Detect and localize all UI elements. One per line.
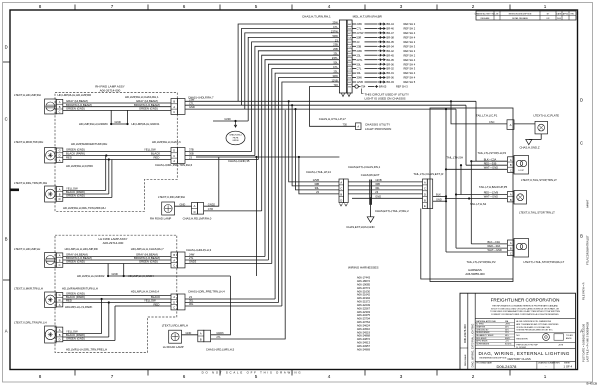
- wire 23TW row 3 L-bend: [245, 33, 340, 109]
- svg-text:A06-24519: A06-24519: [357, 330, 371, 334]
- wire BLK-C3A stop lamp 2: [471, 240, 507, 244]
- connector/lamp LH marker turn: [45, 292, 63, 308]
- svg-text:REF SH 2: REF SH 2: [404, 40, 416, 44]
- svg-text:G: G: [59, 149, 61, 153]
- svg-text:HD,LMP,LH,H,CHAS,RH,7: HD,LMP,LH,H,CHAS,RH,7: [131, 247, 164, 251]
- wire RED-30B stop lamp 1: [460, 161, 507, 166]
- svg-text:HD,LMP,RH,H,GND31: HD,LMP,RH,H,GND31: [132, 122, 160, 126]
- riser wire C7L to stop RED: [465, 105, 467, 165]
- wire GREEN (GND) LH marker: [63, 292, 171, 296]
- svg-text:A06-23704: A06-23704: [357, 317, 371, 321]
- svg-text:BR-05: BR-05: [379, 85, 387, 89]
- svg-text:A: A: [5, 329, 8, 334]
- right margin vertical plot text: [582, 199, 590, 362]
- svg-text:GND: GND: [375, 194, 381, 198]
- label CHAS,EXT,H,RH,GND: [346, 225, 374, 229]
- wire GND stub right of external connector: [433, 197, 447, 202]
- svg-text:MFG ENGR: MFG ENGR: [476, 338, 487, 340]
- svg-text:TAIL,LT,H,LIC,P1: TAIL,LT,H,LIC,P1: [476, 113, 498, 117]
- svg-text:23B: 23B: [357, 44, 362, 48]
- svg-text:HD,LMP,RH,H,GNDMC: HD,LMP,RH,H,GNDMC: [79, 122, 108, 126]
- svg-text:REF SH 3: REF SH 3: [396, 85, 408, 89]
- label LTEXT,U,TAIL,STOP,TRN,LT: [521, 178, 557, 182]
- wire BLACK (PARK) RH marker: [63, 152, 171, 157]
- svg-text:B: B: [59, 333, 61, 337]
- connector license lamp pin A: [507, 120, 514, 130]
- svg-text:RELEASE: RELEASE: [481, 17, 490, 20]
- svg-text:6: 6: [183, 4, 186, 9]
- svg-text:CHAS,H,TAIL,LP,14: CHAS,H,TAIL,LP,14: [306, 170, 331, 174]
- label LTEXT,H,MKR,TRN,RH: [14, 140, 43, 144]
- svg-text:D: D: [173, 149, 175, 153]
- connector/lamp RH headlamp (hi/lo): [45, 99, 63, 114]
- label CHAS,H,T,URN,RH,1: [302, 14, 331, 18]
- block right-side wires with BR references: [352, 22, 416, 84]
- svg-text:A06-24624: A06-24624: [357, 323, 371, 327]
- svg-text:D: D: [340, 198, 342, 202]
- svg-text:A06-20774: A06-20774: [357, 286, 371, 290]
- svg-text:GREEN (GND): GREEN (GND): [66, 194, 85, 198]
- svg-text:C: C: [59, 263, 61, 267]
- svg-text:BLK—C3A: BLK—C3A: [484, 157, 497, 161]
- svg-text:B-45CB: B-45CB: [586, 382, 597, 386]
- label HD,LMP,RH,H,HD,LMP,RD: [58, 93, 92, 97]
- wire 30W row 13 L-bend: [279, 78, 340, 303]
- svg-text:GREEN (GND): GREEN (GND): [139, 260, 158, 264]
- label CHAS,H,HDLP,RH,7: [188, 96, 214, 100]
- connector/lamp RH marker turn: [45, 148, 63, 164]
- svg-text:GND: GND: [186, 331, 192, 335]
- lamp stop/turn RH: [514, 239, 529, 258]
- wire BLACK (PARK) LH DRL: [63, 333, 109, 337]
- svg-text:12VB: 12VB: [313, 178, 320, 182]
- svg-text:G: G: [59, 293, 61, 297]
- wire GND6 LH road lamp: [124, 276, 231, 335]
- label HD,LMP,LH,H,CHAS,RH,7: [131, 247, 164, 251]
- wire WHT-GND stop lamp 2: [446, 248, 507, 252]
- riser wires RH DRL to marker rows: [106, 156, 112, 198]
- svg-text:RELIABILITY ENGR: RELIABILITY ENGR: [476, 334, 494, 337]
- wire RED-30A stop lamp 2: [456, 244, 507, 248]
- svg-text:GND: GND: [189, 105, 195, 109]
- svg-text:C: C: [173, 264, 175, 268]
- connector HD,LMP,RH,H,CHAS,RH,1: [171, 99, 185, 115]
- svg-text:REF SH 4: REF SH 4: [404, 62, 416, 66]
- label LTEXT,U,RD,LMP,LH: [162, 323, 188, 327]
- riser wire 23W to stop lamp BLK: [475, 101, 477, 161]
- svg-text:CHECKED BY: CHECKED BY: [476, 329, 489, 331]
- svg-text:D: D: [59, 338, 61, 342]
- svg-text:C: C: [510, 168, 512, 172]
- title block approvals table: [475, 319, 514, 348]
- wires LH marker rows to bundle: [185, 295, 275, 299]
- svg-text:A: A: [59, 100, 61, 104]
- svg-text:CSC: CSC: [489, 120, 495, 124]
- svg-text:23TL: 23TL: [357, 58, 363, 62]
- title block company name: [491, 297, 560, 302]
- svg-text:GND3: GND3: [189, 260, 197, 264]
- wire 23TL row 9 L-bend: [265, 60, 339, 257]
- svg-text:A06-22567: A06-22567: [357, 306, 371, 310]
- svg-text:A06-22249: A06-22249: [357, 303, 371, 307]
- wire RED LH marker: [63, 299, 171, 307]
- svg-text:3: 3: [400, 374, 403, 379]
- svg-text:A: A: [59, 254, 61, 258]
- svg-text:LOOP: LOOP: [518, 170, 524, 172]
- svg-text:30B: 30B: [189, 152, 194, 156]
- svg-text:-: -: [546, 365, 547, 369]
- label CHAS,RN,EXT: [361, 173, 380, 177]
- connector CHAS,H,RD,LMP,RH,0: [192, 203, 204, 215]
- svg-text:C: C: [173, 154, 175, 158]
- svg-text:HD,LMP,RH,H,CHAS,6: HD,LMP,RH,H,CHAS,6: [152, 140, 181, 144]
- svg-text:REF SH 4: REF SH 4: [404, 31, 416, 35]
- label HD,LMP,RH,H,GND31: [132, 122, 160, 126]
- svg-text:46%: 46%: [505, 326, 509, 328]
- svg-text:CHAS,H,GNLJ: CHAS,H,GNLJ: [229, 134, 242, 137]
- svg-text:C: C: [5, 117, 8, 122]
- label CHASSIS UTILITY LIGHT PROVISION: [365, 122, 391, 130]
- zone row letters right: [580, 98, 583, 334]
- svg-text:D: D: [424, 192, 426, 196]
- wire GND row to external connector: [352, 194, 423, 199]
- label HD,LMP,LH,H,GND4: [128, 274, 154, 278]
- svg-text:D: D: [59, 154, 61, 158]
- svg-text:REF SH 2: REF SH 2: [404, 53, 416, 57]
- svg-text:8: 8: [39, 4, 42, 9]
- wire WHT-GND stop lamp 1: [446, 165, 507, 169]
- wire GND long run RH: [185, 105, 456, 109]
- svg-text:GND30: GND30: [232, 140, 238, 142]
- svg-text:C: C: [59, 110, 61, 114]
- title block left vertical strips: [460, 324, 475, 368]
- wire YELLOW LH DRL: [63, 330, 102, 334]
- title block notes right: [516, 320, 559, 332]
- svg-text:HD,LMP,RH,H,DRL,TRN,MRK,RH: HD,LMP,RH,H,DRL,TRN,MRK,RH: [63, 206, 106, 210]
- svg-text:DIAG, WIRING, EXTERNAL LIGHTIN: DIAG, WIRING, EXTERNAL LIGHTING: [479, 351, 570, 356]
- wire WHT-GND backup lamp: [446, 195, 507, 200]
- wire 23L row 8 L-bend: [262, 55, 340, 211]
- svg-text:D: D: [173, 300, 175, 304]
- svg-text:BLK—C3A: BLK—C3A: [488, 240, 501, 244]
- wire 27L LH road lamp feed: [211, 110, 286, 339]
- svg-text:DWG NAME: DWG NAME: [464, 354, 467, 366]
- wire LH ground link GND: [107, 264, 125, 278]
- svg-text:A: A: [59, 328, 61, 332]
- svg-text:30L: 30L: [189, 302, 194, 306]
- svg-text:LIGHT PROVISION: LIGHT PROVISION: [365, 127, 391, 131]
- label CHAS,EXT,H,TAIL,LT,RH,2: [375, 209, 409, 213]
- row 15 utility circuit stub with splice circle: [352, 85, 408, 89]
- corner plot stamp text: [586, 382, 597, 386]
- wire GRAY (HI,BEAM) RH: [63, 99, 171, 103]
- wire BLACK (PARK) LH marker: [63, 295, 171, 300]
- label HD,LMP,RH,H,CHAS,6: [152, 140, 181, 144]
- label LTEXT,U,RD,LMP,RH: [158, 195, 185, 199]
- svg-text:BR-06: BR-06: [387, 76, 395, 80]
- svg-text:IS NOT TO BE DISCLOSED OR DUPL: IS NOT TO BE DISCLOSED OR DUPLICATED IN …: [491, 307, 560, 310]
- svg-text:C: C: [173, 306, 175, 310]
- svg-text:3: 3: [400, 4, 403, 9]
- zone row tick marker left (thick): [10, 189, 19, 192]
- wire BLACK (PARK) RH DRL: [63, 190, 109, 194]
- svg-text:RH ROAD LAMP: RH ROAD LAMP: [150, 217, 171, 221]
- RH FWD LAMP ASSY dashed enclosure: [55, 93, 177, 212]
- svg-text:C7R: C7R: [208, 207, 213, 211]
- svg-text:A06-50855-000: A06-50855-000: [465, 272, 485, 276]
- wire GREEN (GND) RH DRL: [63, 194, 112, 198]
- svg-text:6: 6: [183, 374, 186, 379]
- svg-text:A: A: [357, 125, 359, 129]
- svg-text:D06-24378-000: D06-24378-000: [463, 324, 467, 343]
- svg-text:1: 1: [544, 374, 547, 379]
- svg-text:E: E: [424, 204, 426, 208]
- svg-text:GND: GND: [112, 272, 118, 276]
- svg-text:CENTURY CLASS: CENTURY CLASS: [507, 357, 531, 361]
- svg-text:LIGHT IS USED ON CHASSIS: LIGHT IS USED ON CHASSIS: [365, 97, 406, 101]
- svg-text:GND: GND: [224, 117, 230, 121]
- label LTEXT,U,HD,LMP,LH: [14, 247, 40, 251]
- svg-text:TAIL,LT,H,S2: TAIL,LT,H,S2: [470, 202, 487, 206]
- svg-text:A06-23764: A06-23764: [357, 320, 371, 324]
- svg-text:HD,LMP,H,LH,GND02: HD,LMP,H,LH,GND02: [77, 274, 105, 278]
- label TAIL,LT,H,SH: [446, 155, 463, 159]
- svg-text:D: D: [580, 98, 583, 103]
- riser BLK net to stop lamp 2: [470, 161, 472, 244]
- svg-text:FTL/VCDRS/WHTRNLDT: FTL/VCDRS/WHTRNLDT: [586, 235, 590, 265]
- svg-text:D06-24378: D06-24378: [497, 364, 518, 369]
- svg-text:FR,FB: FR,FB: [233, 137, 239, 139]
- svg-text:+8/96: +8/96: [505, 324, 510, 326]
- svg-text:A06-21994: A06-21994: [357, 296, 371, 300]
- svg-text:BR-01: BR-01: [387, 71, 395, 75]
- svg-text:LTEXT,U,HD,LMP,LH: LTEXT,U,HD,LMP,LH: [14, 247, 40, 251]
- label HD,LMP,LH,H,HD,LMP,RD: [65, 247, 98, 251]
- svg-text:APVD: APVD: [563, 12, 569, 15]
- svg-text:754: 754: [361, 85, 366, 89]
- label TAIL,LT,H,LIC,P1: [476, 113, 498, 117]
- svg-text:C: C: [173, 110, 175, 114]
- svg-text:BR-47: BR-47: [387, 31, 395, 35]
- svg-text:A: A: [510, 158, 512, 162]
- svg-text:A06-24969: A06-24969: [357, 347, 371, 351]
- wire 20B row 7 L-bend: [258, 51, 339, 160]
- svg-text:C7L: C7L: [357, 27, 362, 31]
- svg-text:BLK: BLK: [436, 193, 441, 197]
- svg-text:23W: 23W: [189, 97, 195, 101]
- wire 50W row 4 L-bend: [248, 37, 339, 121]
- svg-text:B: B: [200, 338, 202, 342]
- svg-text:TO BE USED FOR MANUFACTURE OF: TO BE USED FOR MANUFACTURE OF ANY ITEM W…: [490, 310, 560, 313]
- svg-text:A06-29714-000: A06-29714-000: [103, 241, 124, 245]
- svg-text:REF SH 2: REF SH 2: [404, 22, 416, 26]
- label TAIL,LT,H,CHAS,EXT,R: [413, 172, 443, 176]
- svg-text:LTEXT,X,DRL,TRN,PK,LH: LTEXT,X,DRL,TRN,PK,LH: [14, 320, 47, 324]
- label HD,LMP,H,LH,GND02: [77, 274, 105, 278]
- svg-text:HD,LMP,LH,H,CHAS,4: HD,LMP,LH,H,CHAS,4: [131, 290, 160, 294]
- svg-text:48%: 48%: [505, 335, 509, 337]
- label TAIL,LT,H,STOP,LH,P4: [478, 151, 507, 155]
- label HD,LMP,RH,H,D,PRK: [66, 164, 93, 168]
- label HD,LMP,RH,H,DRL,TRN,MRK,RH: [63, 206, 106, 210]
- label CHAS,H,HDLP,LH,3: [186, 248, 212, 252]
- svg-text:ANCE: ANCE: [566, 337, 572, 340]
- svg-text:LTEXT,H,HD,LMP,RH: LTEXT,H,HD,LMP,RH: [14, 93, 41, 97]
- title block divider: [475, 318, 575, 320]
- svg-text:30L: 30L: [189, 299, 194, 303]
- svg-text:REF SH 5: REF SH 5: [404, 80, 416, 84]
- label CHAS,H,DRL,PRK,TRN,RH,6: [155, 163, 193, 167]
- wire labels 12VB 30B 30L 23 left of tail connector: [313, 178, 320, 194]
- wire GND branch to ground stud: [213, 117, 248, 127]
- svg-text:LTEXT,H,LIC,PLATE: LTEXT,H,LIC,PLATE: [534, 113, 560, 117]
- svg-text:CHAS,H,T,URN,RH,1: CHAS,H,T,URN,RH,1: [302, 14, 331, 18]
- wire BLK-C3A stop lamp 1: [470, 157, 507, 162]
- svg-text:REF SH 4: REF SH 4: [404, 58, 416, 62]
- wire GND2 RH road lamp: [204, 157, 219, 206]
- lamp RH ROAD LAMP: [162, 202, 175, 215]
- svg-text:GND: GND: [436, 197, 442, 201]
- label HD,LMP,RH,H,CHAS,RH,1: [125, 95, 159, 99]
- svg-text:HD,LMP,MARKER/TURN,RH: HD,LMP,MARKER/TURN,RH: [71, 142, 107, 146]
- svg-text:DESIGN ENGR: DESIGN ENGR: [476, 332, 490, 334]
- connector HD,LMP,RH,H,CHAS,6: [171, 148, 185, 164]
- svg-text:HDLMP,LH,H,S,PARK: HDLMP,LH,H,S,PARK: [65, 305, 93, 309]
- svg-text:4: 4: [328, 4, 331, 9]
- svg-text:FILE PATH = P:: FILE PATH = P:: [582, 282, 586, 300]
- title block drawing title: [479, 351, 570, 361]
- svg-text:TAIL,LT,H,BACKUP,P5: TAIL,LT,H,BACKUP,P5: [479, 185, 508, 189]
- label CHAS,H,DRL,PRE,TRN,LH,4: [188, 290, 225, 294]
- svg-text:GREEN (GND): GREEN (GND): [139, 107, 158, 111]
- svg-text:CHAS,H,UTIL,LP,17: CHAS,H,UTIL,LP,17: [319, 117, 346, 121]
- svg-text:B: B: [59, 192, 61, 196]
- svg-text:CHAS,H,GND,Z: CHAS,H,GND,Z: [520, 146, 540, 150]
- svg-text:23W: 23W: [357, 22, 363, 26]
- svg-text:C: C: [510, 251, 512, 255]
- svg-text:50L: 50L: [357, 62, 362, 66]
- svg-text:7: 7: [111, 374, 114, 379]
- svg-text:BR-42: BR-42: [387, 49, 395, 53]
- revision table: [475, 11, 576, 20]
- wire 23W long run RH hi: [185, 97, 476, 101]
- svg-text:IF NON ON-BOARD COLOR MAX. MI: IF NON ON-BOARD COLOR MAX. MIN: [516, 326, 550, 329]
- wire 23B row 6 L-bend: [255, 46, 340, 155]
- label CHAS,H,TAIL,LP,14: [306, 170, 331, 174]
- wire CSC license lamp feed: [450, 100, 507, 124]
- svg-text:CHAS,H,DRL,PRK,TRN,RH,6: CHAS,H,DRL,PRK,TRN,RH,6: [155, 163, 193, 167]
- svg-text:A06-21642: A06-21642: [357, 293, 371, 297]
- svg-text:C: C: [580, 141, 583, 146]
- svg-text:HD,LMP,LH,H,HD,LMP,RD: HD,LMP,LH,H,HD,LMP,RD: [65, 247, 98, 251]
- label LTEXT,H,LIC,PLATE: [534, 113, 560, 117]
- wire RH ground link GND: [110, 110, 129, 125]
- svg-text:A. THRU: A. THRU: [476, 323, 484, 326]
- svg-text:CONSENT OF FREIGHTLINER CORPOR: CONSENT OF FREIGHTLINER CORPORATION. ALL…: [491, 313, 560, 316]
- svg-text:REF SH 3: REF SH 3: [404, 44, 416, 48]
- wire 12VB row 14 L-bend: [282, 82, 340, 306]
- svg-text:BR-05: BR-05: [387, 40, 395, 44]
- svg-text:RED: RED: [66, 156, 72, 160]
- connector CHAS,H,RD,LMP,LH,5: [198, 330, 211, 342]
- riser wires LH DRL to marker rows: [102, 299, 120, 341]
- svg-text:RED—12VB: RED—12VB: [484, 191, 499, 195]
- svg-text:A06-18072: A06-18072: [357, 279, 371, 283]
- svg-text:CHASSIS UTILITY: CHASSIS UTILITY: [365, 122, 390, 126]
- svg-text:RED—30B: RED—30B: [484, 161, 497, 165]
- lamp stop/turn LH: [514, 156, 529, 175]
- svg-text:5: 5: [255, 4, 258, 9]
- zone column numbers bottom: [39, 370, 547, 379]
- svg-text:30L: 30L: [315, 186, 320, 190]
- svg-text:FREIGHTLINER CORPORATION: FREIGHTLINER CORPORATION: [491, 297, 560, 302]
- label LH ROAD LAMP: [163, 345, 184, 349]
- svg-text:C7L: C7L: [357, 67, 362, 71]
- svg-text:D: D: [194, 210, 196, 214]
- wire GND LH road lamp: [182, 331, 198, 335]
- svg-text:GREEN (GND): GREEN (GND): [66, 107, 85, 111]
- connector/lamp LH DRL turn park: [45, 326, 63, 343]
- svg-text:REF SH 4: REF SH 4: [404, 71, 416, 75]
- connector stop/turn lamp RH pins A B C: [508, 240, 515, 256]
- svg-text:GND: GND: [180, 202, 186, 206]
- label TAIL,LT,H,STOP,RH,P2: [467, 260, 496, 264]
- svg-text:27L: 27L: [189, 256, 194, 260]
- svg-text:TAIL,LT,H,STOP,LH,P4: TAIL,LT,H,STOP,LH,P4: [478, 151, 507, 155]
- connector backup lamp pins A B: [508, 192, 515, 202]
- svg-text:A: A: [424, 181, 426, 185]
- svg-text:+2%: +2%: [505, 341, 509, 343]
- label TAIL,LT,H,S2: [470, 202, 487, 206]
- svg-text:B: B: [5, 237, 8, 242]
- svg-text:HD,LMP,RH,H,HD,LMP,RD: HD,LMP,RH,H,HD,LMP,RD: [58, 93, 92, 97]
- svg-text:A: A: [59, 303, 61, 307]
- label LTEXT,U,MKR,TRN,LH: [14, 286, 43, 290]
- svg-text:A: A: [510, 123, 512, 127]
- wire RED RH marker: [63, 148, 171, 160]
- svg-text:CHAS,RN,EXT: CHAS,RN,EXT: [361, 173, 380, 177]
- svg-text:REF SH 2: REF SH 2: [404, 27, 416, 31]
- label HD,LMP,MARKER/TURN,LH: [62, 286, 98, 290]
- label CHAS,H,GND,Z: [520, 146, 540, 150]
- label CHAS,H,RD,LMP,LH,5: [206, 347, 235, 351]
- svg-text:MDL,H,T,URN,RH,BR: MDL,H,T,URN,RH,BR: [353, 14, 383, 18]
- svg-text:B: B: [59, 258, 61, 262]
- svg-text:LH ROAD LAMP: LH ROAD LAMP: [163, 345, 184, 349]
- svg-text:30B: 30B: [375, 182, 380, 186]
- svg-text:BR-05: BR-05: [387, 58, 395, 62]
- svg-text:A06-24510: A06-24510: [357, 327, 371, 331]
- svg-text:37B: 37B: [189, 148, 194, 152]
- svg-text:1 OF 4: 1 OF 4: [564, 364, 573, 368]
- svg-text:BR-03: BR-03: [387, 80, 395, 84]
- svg-text:C: C: [340, 187, 342, 191]
- connector MDL,H,T,URN,RH,BR (cab/chassis bulkhead connector): [339, 20, 352, 97]
- svg-text:HD,LMP,LH,H,DRL,TRN,PRE,LH: HD,LMP,LH,H,DRL,TRN,PRE,LH: [66, 347, 107, 351]
- svg-text:REGISTER: REGISTER: [516, 338, 528, 340]
- wire 50L row 10 L-bend: [268, 64, 339, 260]
- ground symbol CHAS,EXT,H,RH,GND: [367, 198, 374, 222]
- svg-text:D: D: [59, 298, 61, 302]
- svg-text:12VB: 12VB: [357, 80, 364, 84]
- svg-text:CHAS,H,RD,LMP,LH,5: CHAS,H,RD,LMP,LH,5: [206, 347, 235, 351]
- svg-text:A06-22303: A06-22303: [357, 310, 371, 314]
- svg-text:RED: RED: [154, 156, 160, 160]
- svg-text:PLOT DATE = 10/9/2002 3:23:56: PLOT DATE = 10/9/2002 3:23:56: [582, 323, 586, 362]
- svg-text:A: A: [173, 258, 175, 262]
- riser RED to stop lamp 2: [455, 195, 457, 249]
- wire C7L row 11 L-bend: [272, 69, 340, 264]
